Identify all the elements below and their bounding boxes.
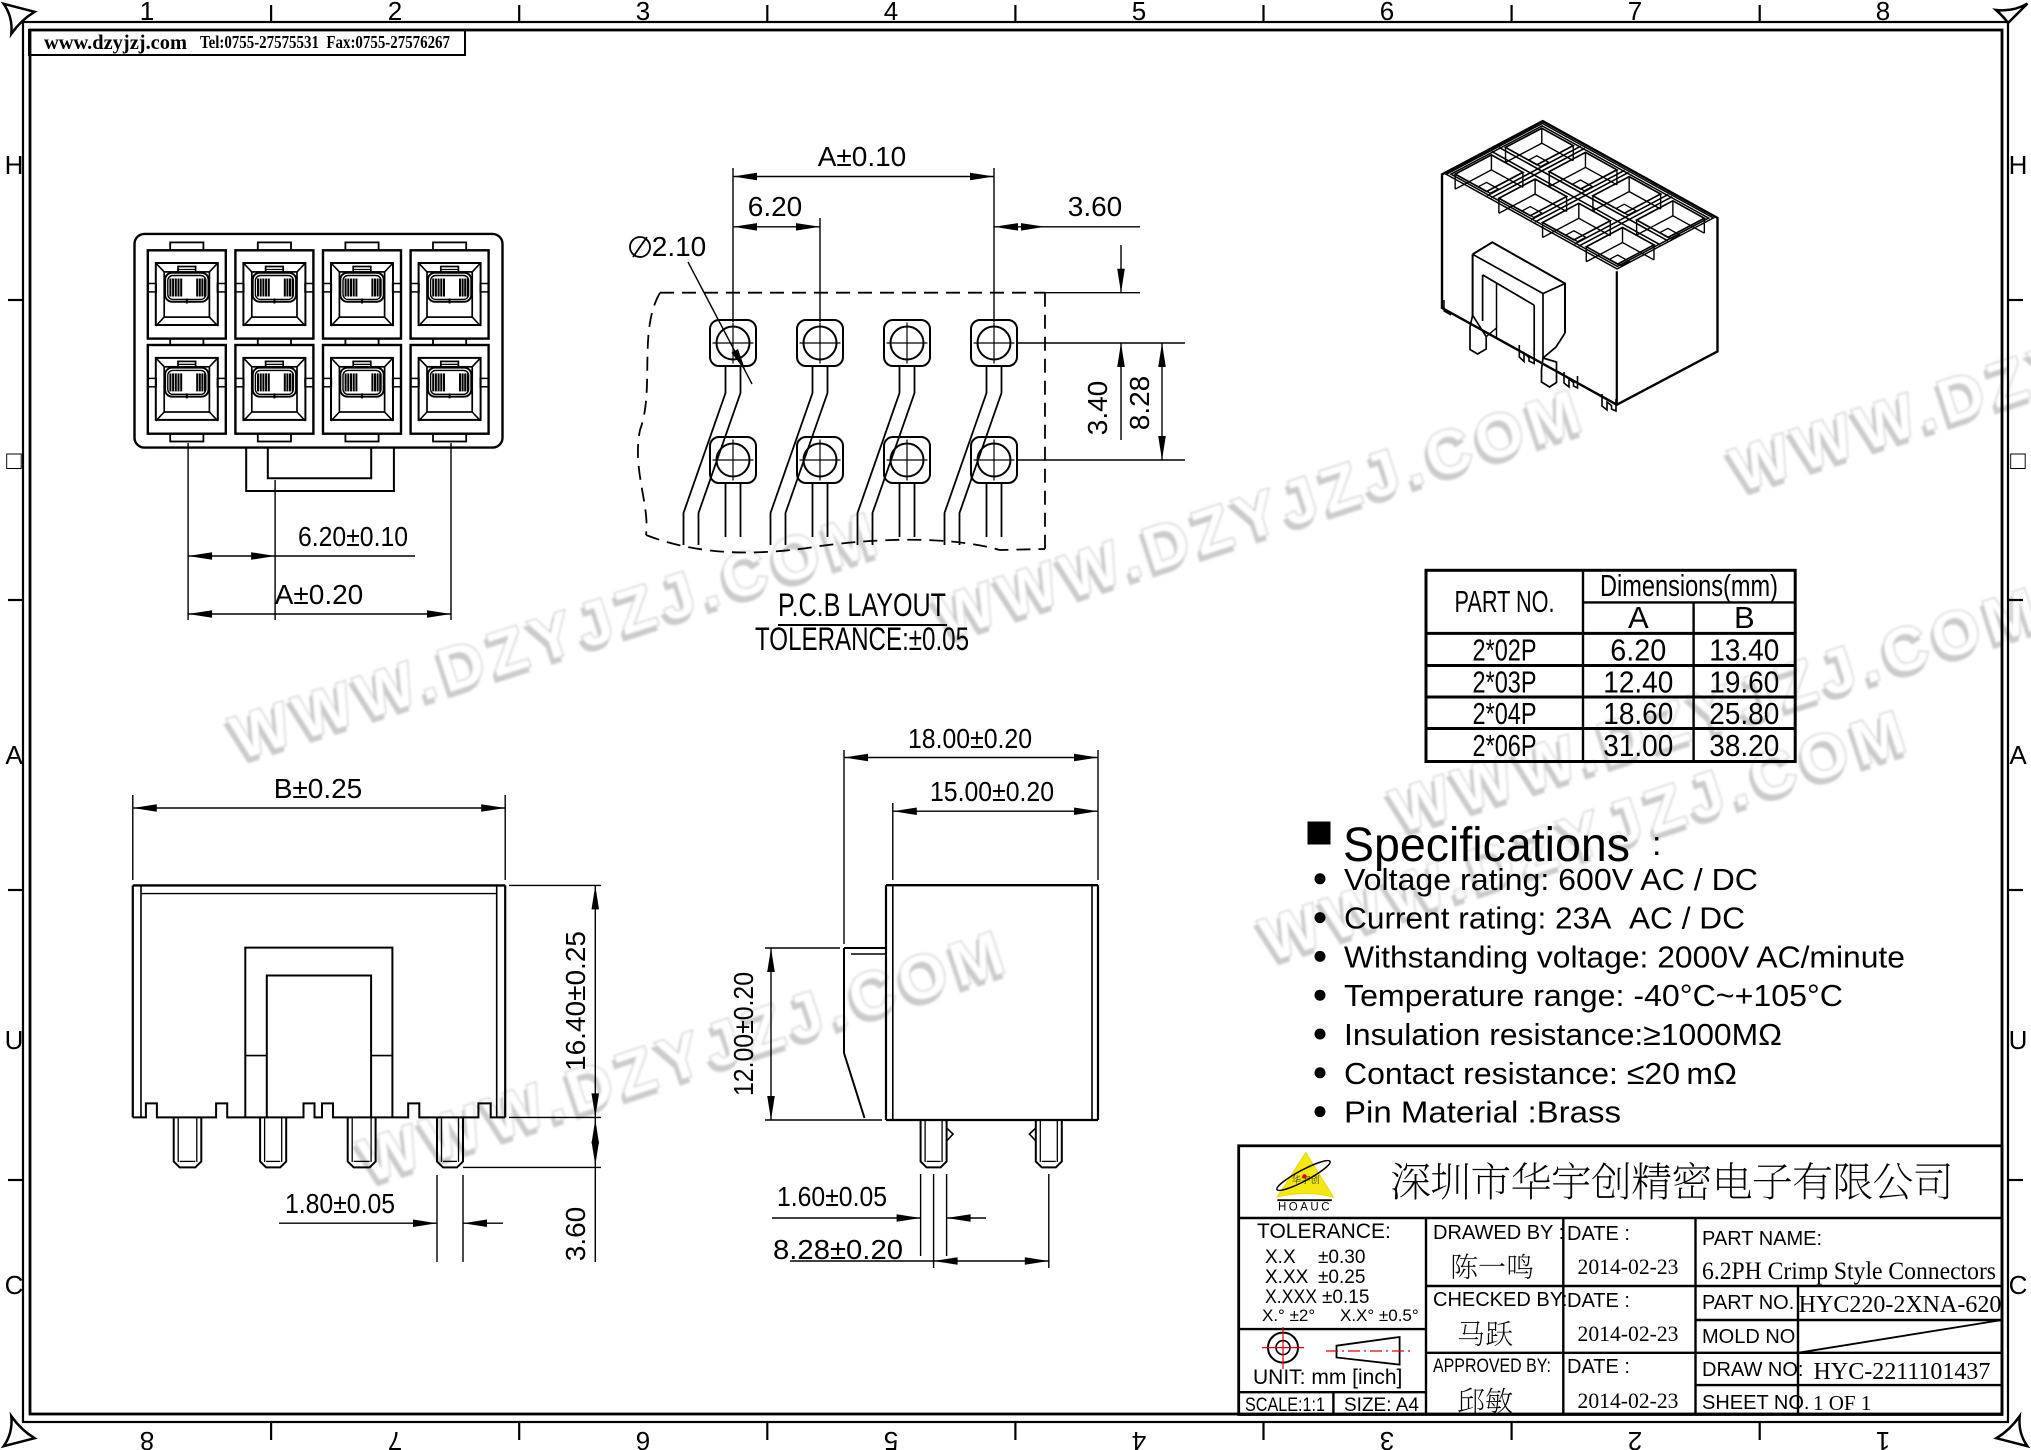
- svg-text:HYC220-2XNA-620: HYC220-2XNA-620: [1799, 1292, 2002, 1318]
- svg-text::: :: [1652, 825, 1661, 863]
- svg-text:3.40: 3.40: [1082, 381, 1113, 436]
- isometric cavity r2c2: [1549, 152, 1617, 190]
- isometric cavity r2c4: [1637, 201, 1705, 239]
- svg-text:A±0.10: A±0.10: [818, 141, 907, 172]
- table row 2*03P: [1473, 664, 1780, 699]
- svg-text:X.XX: X.XX: [1265, 1267, 1309, 1288]
- front view cavity column 3 top tab: [345, 242, 378, 250]
- svg-text:3: 3: [636, 0, 650, 26]
- frame zone ticks bottom: [271, 1422, 1760, 1440]
- specification bullet 2: [1315, 901, 1746, 936]
- pcb layout dashed board outline: [660, 292, 1045, 294]
- svg-text:2*06P: 2*06P: [1473, 728, 1537, 763]
- svg-text:DATE :: DATE :: [1567, 1290, 1630, 1312]
- specification bullet 1: [1315, 862, 1759, 897]
- front view connector outer body: [135, 234, 503, 448]
- side view B key step lines: [245, 1055, 392, 1057]
- svg-text:6: 6: [636, 1426, 650, 1450]
- svg-text:19.60: 19.60: [1709, 664, 1779, 699]
- front view cavity r1c3: [323, 250, 401, 338]
- svg-text:3.60: 3.60: [1068, 191, 1123, 222]
- front view cavity r2c1: [148, 345, 226, 434]
- svg-text:2014-02-23: 2014-02-23: [1578, 1254, 1679, 1279]
- dimension 8.28±0.20: [773, 1174, 1049, 1268]
- pcb dimension A±0.10: [733, 141, 994, 322]
- svg-text:Pin Material :Brass: Pin Material :Brass: [1344, 1095, 1621, 1130]
- svg-text:APPROVED BY:: APPROVED BY:: [1433, 1355, 1551, 1377]
- svg-text:25.80: 25.80: [1709, 696, 1779, 731]
- svg-text:18.00±0.20: 18.00±0.20: [908, 723, 1032, 754]
- front view cavity r1c1: [148, 250, 226, 338]
- dimension 15.00±0.20: [893, 776, 1098, 880]
- front view cavity column 1 top tab: [170, 242, 203, 250]
- frame zone ticks left: [8, 300, 23, 1180]
- svg-text:2.10: 2.10: [652, 231, 707, 262]
- company name chinese: [1392, 1162, 1950, 1200]
- svg-text:38.20: 38.20: [1709, 728, 1779, 763]
- isometric view front vertical edge: [1616, 271, 1618, 405]
- dimension B±0.25: [133, 773, 505, 880]
- side view right latch profile: [844, 948, 886, 1118]
- svg-text:X.XXX: X.XXX: [1265, 1287, 1317, 1308]
- svg-text:±0.25: ±0.25: [1318, 1267, 1365, 1288]
- dimension 3.60 (pin length): [463, 1117, 601, 1262]
- svg-text:3.60: 3.60: [560, 1207, 591, 1262]
- draw no cell: [1702, 1359, 1990, 1385]
- pcb pad top row 2: [797, 320, 843, 366]
- pcb trace from top pad 4: [945, 366, 1002, 545]
- pcb pad bottom row 4: [971, 437, 1017, 537]
- isometric view connector outline: [1442, 121, 1718, 405]
- specification bullet 7: [1315, 1095, 1622, 1130]
- pcb layout title text: [755, 587, 969, 657]
- sheet no cell: [1702, 1391, 1871, 1415]
- pcb dimension 3.60: [994, 191, 1140, 231]
- svg-text:PART NO.: PART NO.: [1455, 584, 1555, 619]
- specification bullet 5: [1315, 1017, 1783, 1052]
- svg-text:MOLD NO.: MOLD NO.: [1702, 1326, 1801, 1348]
- svg-text:SCALE:1:1: SCALE:1:1: [1245, 1395, 1325, 1416]
- frame zone numbers bottom (rotated): [140, 1426, 1890, 1450]
- side view right pin barbs: [947, 1128, 1036, 1141]
- unit scale size text: [1245, 1366, 1419, 1416]
- pcb trace from top pad 1: [684, 366, 741, 545]
- isometric view mounting feet: [1519, 345, 1534, 364]
- front view cavity column 4 top tab: [433, 242, 466, 250]
- svg-text:6: 6: [1380, 0, 1394, 26]
- svg-text:4: 4: [884, 0, 898, 26]
- svg-text:H: H: [5, 150, 24, 180]
- drawn/checked/approved cells: [1433, 1222, 1679, 1413]
- front view cavity column 4 mid tab: [433, 339, 466, 345]
- isometric view pcb latch: [1470, 242, 1565, 387]
- svg-text:15.00±0.20: 15.00±0.20: [930, 776, 1054, 807]
- svg-text:SIZE: A4: SIZE: A4: [1344, 1395, 1419, 1416]
- svg-text:Dimensions(mm): Dimensions(mm): [1600, 568, 1778, 603]
- svg-text:2: 2: [1628, 1426, 1642, 1450]
- side view B pin 4: [437, 1117, 463, 1167]
- pcb trace from top pad 3: [858, 366, 915, 545]
- svg-text:A±0.20: A±0.20: [275, 579, 364, 610]
- front view cavity r2c2: [235, 345, 313, 434]
- front view cavity r1c4: [411, 250, 489, 338]
- frame zone numbers top: [140, 0, 1890, 26]
- specification bullet 6: [1315, 1056, 1738, 1091]
- svg-text:C: C: [2009, 1270, 2028, 1300]
- svg-text:TOLERANCE:±0.05: TOLERANCE:±0.05: [755, 621, 969, 657]
- side view right body outline: [886, 885, 1098, 1120]
- side view B bottom edge with standoff notches: [133, 1103, 505, 1117]
- side view B centre key outer: [245, 948, 392, 1118]
- svg-text:±0.30: ±0.30: [1318, 1247, 1365, 1268]
- front view dimension 6.20±0.10: [188, 443, 451, 620]
- table row 2*04P: [1473, 696, 1780, 731]
- dimension 18.00±0.20: [844, 723, 1098, 944]
- svg-text:A: A: [5, 740, 23, 770]
- front view cavity r2c4: [411, 345, 489, 434]
- front view cavity column 2 mid tab: [258, 339, 291, 345]
- svg-text:2*04P: 2*04P: [1473, 696, 1537, 731]
- svg-text:16.40±0.25: 16.40±0.25: [560, 931, 591, 1071]
- mold no cell with diagonal: [1702, 1320, 2002, 1353]
- front view cavity column 1 bottom tab: [170, 434, 203, 442]
- svg-text:Current rating: 23A AC / DC: Current rating: 23A AC / DC: [1344, 901, 1745, 936]
- svg-text:Contact resistance: ≤20 mΩ: Contact resistance: ≤20 mΩ: [1344, 1056, 1737, 1091]
- side view right pin 2: [1036, 1120, 1062, 1167]
- specification bullet 4: [1315, 978, 1844, 1013]
- isometric cavity r1c1: [1455, 155, 1523, 193]
- svg-text:B±0.25: B±0.25: [274, 773, 363, 804]
- front view polarization key inner: [268, 448, 371, 479]
- svg-text:X.X° ±0.5°: X.X° ±0.5°: [1340, 1306, 1419, 1325]
- svg-text:Insulation resistance:≥1000MΩ: Insulation resistance:≥1000MΩ: [1344, 1017, 1782, 1052]
- pcb dimension 3.40: [1017, 245, 1185, 460]
- specifications heading: [1308, 819, 1661, 872]
- svg-text:4: 4: [1132, 1426, 1146, 1450]
- svg-text:P.C.B LAYOUT: P.C.B LAYOUT: [778, 587, 946, 623]
- svg-text:SHEET NO.: SHEET NO.: [1702, 1392, 1809, 1414]
- svg-text:A: A: [1628, 600, 1649, 635]
- pcb pad top row 1: [710, 320, 756, 366]
- pcb pad top row 4: [971, 320, 1017, 366]
- svg-text:6.20: 6.20: [748, 191, 803, 222]
- dimension 16.40±0.25: [509, 885, 601, 1117]
- svg-text:TOLERANCE:: TOLERANCE:: [1257, 1220, 1391, 1243]
- pcb pad bottom row 1: [710, 437, 756, 537]
- dimension 12.00±0.20: [728, 948, 882, 1120]
- svg-text:PART NO.: PART NO.: [1702, 1292, 1794, 1314]
- pcb trace from top pad 2: [771, 366, 828, 545]
- isometric cavity r1c2: [1499, 179, 1567, 217]
- svg-text:Voltage rating: 600V AC / DC: Voltage rating: 600V AC / DC: [1344, 862, 1758, 897]
- table row 2*06P: [1473, 728, 1780, 763]
- front view dimension A±0.20: [188, 579, 451, 618]
- svg-text:www.dzyjzj.com: www.dzyjzj.com: [44, 30, 187, 54]
- svg-text:U: U: [5, 1025, 24, 1055]
- svg-text:Temperature range: -40°C~+105°: Temperature range: -40°C~+105°C: [1344, 978, 1843, 1013]
- pcb pad top row 3: [884, 320, 930, 366]
- svg-text:6.2PH Crimp Style Connectors: 6.2PH Crimp Style Connectors: [1702, 1258, 1996, 1285]
- svg-text:13.40: 13.40: [1709, 632, 1779, 667]
- isometric cavity r2c1: [1506, 128, 1574, 166]
- table row 2*02P: [1473, 632, 1780, 667]
- front view cavity column 3 bottom tab: [345, 434, 378, 442]
- part name cell: [1702, 1228, 1996, 1285]
- front view polarization key outer: [246, 448, 394, 492]
- svg-text:3: 3: [1380, 1426, 1394, 1450]
- svg-text:5: 5: [1132, 0, 1146, 26]
- svg-text:7: 7: [388, 1426, 402, 1450]
- frame zone ticks right: [2008, 300, 2023, 1180]
- pcb dimension 8.28: [1124, 343, 1166, 460]
- projection symbol: [1262, 1327, 1410, 1369]
- front view cavity column 3 mid tab: [345, 339, 378, 345]
- svg-text:1 OF 1: 1 OF 1: [1813, 1391, 1871, 1415]
- svg-text:UNIT: mm [inch]: UNIT: mm [inch]: [1253, 1366, 1402, 1389]
- front view cavity column 2 top tab: [258, 242, 291, 250]
- isometric view cavity grid walls: [1487, 146, 1672, 246]
- svg-text:A: A: [2009, 740, 2027, 770]
- svg-text:X.X: X.X: [1265, 1247, 1296, 1268]
- svg-text:DRAWED BY :: DRAWED BY :: [1433, 1222, 1564, 1244]
- svg-text:12.40: 12.40: [1603, 664, 1673, 699]
- front view cavity column 2 bottom tab: [258, 434, 291, 442]
- svg-text:8: 8: [140, 1426, 154, 1450]
- dimension 1.80±0.05: [279, 1175, 503, 1262]
- svg-text:12.00±0.20: 12.00±0.20: [728, 972, 759, 1096]
- side view B pin 1: [174, 1117, 202, 1167]
- frame zone letters left: [5, 150, 24, 1300]
- side view right pin 1: [921, 1120, 947, 1167]
- svg-text:Withstanding voltage: 2000V AC: Withstanding voltage: 2000V AC/minute: [1344, 939, 1905, 974]
- svg-text:1: 1: [1876, 1426, 1890, 1450]
- svg-text:2014-02-23: 2014-02-23: [1578, 1321, 1679, 1346]
- side view B body outline: [133, 885, 505, 1117]
- frame zone ticks top: [271, 5, 1760, 22]
- svg-text:U: U: [2009, 1025, 2028, 1055]
- svg-text:2*03P: 2*03P: [1473, 664, 1537, 699]
- pcb pad bottom row 3: [884, 437, 930, 537]
- svg-text:1.80±0.05: 1.80±0.05: [285, 1188, 395, 1219]
- tolerance block text: [1257, 1220, 1419, 1325]
- front view cavity column 4 bottom tab: [433, 434, 466, 442]
- front view cavity r2c3: [323, 345, 401, 434]
- svg-text:1.60±0.05: 1.60±0.05: [777, 1181, 887, 1212]
- svg-text:DATE :: DATE :: [1567, 1356, 1630, 1378]
- website info box: [29, 30, 465, 55]
- svg-text:8: 8: [1876, 0, 1890, 26]
- front view cavity column 1 mid tab: [170, 339, 203, 345]
- svg-text:C: C: [5, 1270, 24, 1300]
- company logo triangle: [1274, 1153, 1333, 1214]
- svg-text:H: H: [2009, 150, 2028, 180]
- isometric cavity r1c4: [1586, 227, 1654, 265]
- svg-text:7: 7: [1628, 0, 1642, 26]
- svg-text:DRAW NO:: DRAW NO:: [1702, 1359, 1803, 1381]
- pcb hole diameter label 2.10: [630, 231, 752, 384]
- svg-text:18.60: 18.60: [1603, 696, 1673, 731]
- pcb dimension 6.20: [733, 191, 820, 322]
- pcb pad bottom row 2: [797, 437, 843, 537]
- svg-text:CHECKED BY:: CHECKED BY:: [1433, 1289, 1567, 1311]
- svg-text:2: 2: [388, 0, 402, 26]
- dimension 1.60±0.05: [772, 1174, 986, 1256]
- specification bullet 3: [1315, 939, 1906, 974]
- svg-text:HOAUC: HOAUC: [1278, 1202, 1332, 1214]
- frame zone letters right: [2009, 150, 2028, 1300]
- side view B pin 2: [260, 1117, 286, 1167]
- svg-text:6.20: 6.20: [1610, 632, 1666, 667]
- part number dimensions table: [1426, 570, 1795, 761]
- side view B centre key inner: [267, 976, 371, 1118]
- svg-text:8.28±0.20: 8.28±0.20: [773, 1234, 903, 1265]
- svg-text:31.00: 31.00: [1603, 728, 1673, 763]
- isometric view top rim inner: [1446, 123, 1713, 269]
- svg-text:2*02P: 2*02P: [1473, 632, 1537, 667]
- isometric cavity r2c3: [1593, 177, 1661, 215]
- svg-text:X.° ±2°: X.° ±2°: [1262, 1306, 1315, 1325]
- side view B pin 3: [348, 1117, 376, 1167]
- svg-text:2014-02-23: 2014-02-23: [1578, 1388, 1679, 1413]
- svg-text:6.20±0.10: 6.20±0.10: [298, 521, 408, 552]
- part no cell: [1702, 1292, 2001, 1318]
- svg-text:HYC-2211101437: HYC-2211101437: [1814, 1359, 1991, 1385]
- title block frame: [1239, 1146, 2002, 1415]
- svg-text:□: □: [6, 445, 22, 475]
- svg-text:PART NAME:: PART NAME:: [1702, 1228, 1822, 1250]
- svg-text:5: 5: [884, 1426, 898, 1450]
- svg-text:±0.15: ±0.15: [1322, 1287, 1369, 1308]
- svg-text:8.28: 8.28: [1124, 376, 1155, 431]
- front view cavity r1c2: [235, 250, 313, 338]
- svg-text:Tel:0755-27575531 Fax:0755-27: Tel:0755-27575531 Fax:0755-27576267: [200, 32, 450, 52]
- svg-text:B: B: [1734, 600, 1755, 635]
- isometric cavity r1c3: [1543, 203, 1611, 241]
- svg-text:DATE :: DATE :: [1567, 1223, 1630, 1245]
- svg-text:□: □: [2010, 445, 2026, 475]
- svg-text:1: 1: [140, 0, 154, 26]
